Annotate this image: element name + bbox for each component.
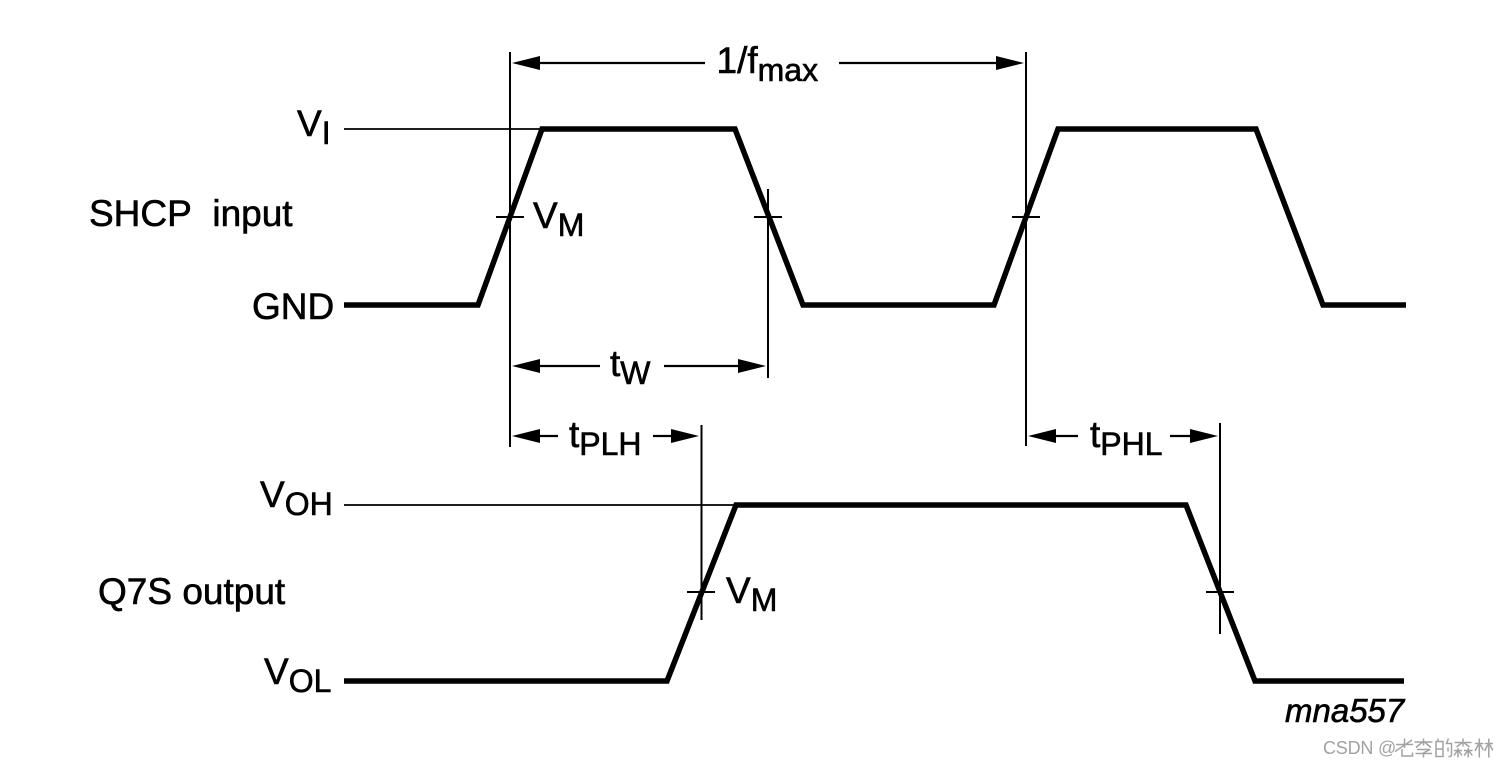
glyph lao <box>1395 739 1413 757</box>
glyph li <box>1415 739 1433 758</box>
wire tPHL arrow right <box>1170 429 1218 443</box>
glyph sen <box>1454 739 1473 758</box>
watermark CJK glyphs <box>1395 739 1493 758</box>
node VM tick on SHCP fall 1 <box>754 216 782 218</box>
wire tW arrow right <box>664 359 766 373</box>
svg-text:Q7S output: Q7S output <box>98 571 286 612</box>
node VOH reference line <box>344 504 736 506</box>
wire SHCP waveform <box>344 129 1406 305</box>
wire vertical dimension line left (rise 1 midpoint) <box>509 52 511 447</box>
wire tW arrow left <box>512 359 600 373</box>
node VM tick on Q7S rise <box>687 591 715 593</box>
node VM tick on SHCP rise 2 <box>1012 216 1040 218</box>
wire tPLH arrow left <box>512 429 558 443</box>
wire vertical dimension line right (rise 2 midpoint) <box>1025 52 1027 446</box>
wire Q7S waveform <box>344 505 1404 681</box>
wire vertical dimension line tW right (fall 1 midpoint) <box>767 189 769 378</box>
wire vertical dimension line tPLH right (Q7S rise midpoint) <box>701 425 703 620</box>
wire tPHL arrow left <box>1028 429 1078 443</box>
node VI reference line <box>344 128 542 130</box>
node VM tick on Q7S fall <box>1206 591 1234 593</box>
svg-text:GND: GND <box>252 286 334 327</box>
svg-text:CSDN @: CSDN @ <box>1323 738 1396 758</box>
svg-text:mna557: mna557 <box>1285 692 1406 729</box>
glyph de <box>1436 739 1452 757</box>
wire tPLH arrow right <box>653 429 699 443</box>
glyph lin <box>1475 739 1493 758</box>
wire 1/fmax arrow right <box>839 56 1024 70</box>
wire 1/fmax arrow left <box>512 56 705 70</box>
svg-text:SHCP input: SHCP input <box>89 193 293 234</box>
wire vertical dimension line tPHL right (Q7S fall midpoint) <box>1219 423 1221 634</box>
node VM tick on SHCP rise 1 <box>496 216 524 218</box>
